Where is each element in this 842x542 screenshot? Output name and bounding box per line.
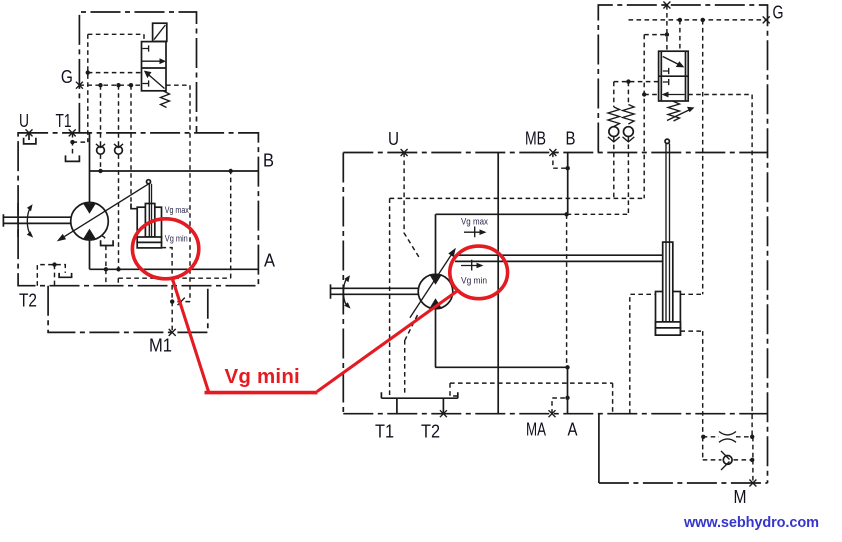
wire: valve top port dashed x=679.9 (679, 20, 681, 51)
svg-text:Vg max: Vg max (461, 217, 488, 227)
svg-text:MA: MA (526, 420, 546, 440)
svg-text:Vg max: Vg max (165, 205, 189, 215)
node: T2 box dot (52, 262, 56, 266)
wire: U pilot dashed polyline (404, 153, 419, 396)
svg-text:G: G (773, 3, 784, 23)
check valve at M (721, 451, 732, 470)
wire: dashed rectangle below A (118, 171, 230, 286)
svg-text:M: M (734, 487, 747, 507)
wire: cylinder bottom dashed (680, 331, 702, 437)
wire: pilot G line dashed (y=19.9) (629, 19, 767, 21)
svg-text:MB: MB (525, 129, 546, 149)
orifice symbol (719, 432, 736, 443)
node: M1 dot (170, 299, 174, 303)
wire: inner box left edge (through pump) (435, 214, 437, 367)
svg-text:B: B (263, 151, 274, 171)
wire: MB sense dashed (553, 153, 568, 169)
spring of pilot valve (161, 91, 170, 108)
wire: dashed y=383.1 (450, 383, 613, 414)
wire: M1 branch dashed (172, 302, 190, 333)
node: pilot drain dot (86, 70, 90, 74)
wire: boundary solid overlay at shaft (17, 203, 19, 237)
rotation arrows P2 (344, 275, 351, 308)
wire: T2 dashed drain box (37, 265, 65, 286)
port M1 (169, 329, 176, 336)
node: MB dot (566, 166, 570, 170)
svg-text:T1: T1 (375, 422, 394, 442)
svg-text:A: A (568, 420, 578, 440)
tank symbol T2 drain (59, 273, 72, 277)
drive shaft (3, 214, 70, 227)
wire: inner box right dashed edge (566, 214, 568, 367)
wire: inner box top edge (436, 213, 567, 215)
wire: right check line x=628.4 (627, 82, 629, 215)
wire: check valve line x=118.5 (118, 85, 120, 269)
drive shaft P2 (331, 284, 419, 298)
wire: valve bottom-left port dashed (644, 94, 659, 96)
svg-text:U: U (388, 129, 399, 149)
svg-text:Vg min: Vg min (165, 233, 188, 243)
tank symbol under U (24, 133, 36, 144)
wire: pilot line to M1 x=190 (189, 85, 191, 301)
node: A-line dot 1 (104, 267, 108, 271)
wire: mid vertical x=498 (497, 153, 499, 414)
svg-text:T2: T2 (19, 291, 37, 311)
svg-text:A: A (264, 251, 275, 271)
wire: cylinder box dashed left (630, 294, 656, 413)
node: orifice dot 2 (750, 435, 754, 439)
pump P1 (variable displacement) (57, 183, 151, 242)
svg-text:www.sebhydro.com: www.sebhydro.com (683, 515, 819, 531)
control valve U2 (2-pos) (659, 51, 689, 101)
wire: T collector bracket (381, 392, 457, 413)
port U2 (401, 149, 408, 156)
tank symbol under T1 (66, 155, 80, 161)
port U (26, 129, 33, 136)
wire: dashed y=214.3 (567, 213, 629, 215)
wire: long dashed y=198.4 (390, 197, 645, 199)
node: B-line dot left (98, 169, 102, 173)
wire: servo Vg-min sense dashed (162, 248, 173, 302)
wire: orifice box dashed (703, 437, 753, 483)
node: checks header dot (626, 79, 630, 83)
wire: port A line (90, 268, 259, 270)
wire: MA sense dashed (552, 398, 568, 414)
port G line (763, 16, 770, 23)
pilot relief valve right (spring+ball) (623, 105, 635, 142)
node: M1 test slash (178, 298, 185, 306)
red circle right (450, 246, 508, 299)
wire: drop to T bracket x=389.6 (389, 198, 391, 395)
wire: inner box bottom edge (435, 366, 567, 368)
linkage to servo cylinder (455, 255, 663, 261)
red leader line left (172, 278, 209, 392)
node: G-line dot 1 (98, 83, 102, 87)
Vg max adjuster (right) (464, 227, 487, 238)
pump P2 (variable displacement) (410, 248, 456, 318)
wire: pilot dashed x=702.7 upper (702, 20, 704, 294)
node: A-line dot 2 (116, 267, 120, 271)
node: orifice dot 1 (701, 435, 705, 439)
port T1 (69, 129, 76, 136)
boundary: main pump housing box (18, 133, 258, 286)
wire: A feed (567, 367, 569, 413)
servo cylinder (stroking piston) (131, 180, 162, 248)
svg-text:U: U (19, 111, 29, 131)
wire: valve left pilot dashed x=644.2 (643, 35, 645, 199)
wire: checks header dashed y=81.6 (614, 81, 659, 83)
port MB (549, 149, 556, 156)
boundary: lower extension box (48, 286, 208, 333)
node: MA dot (565, 396, 569, 400)
wire: port B line (90, 170, 259, 172)
rotation arrows (27, 204, 33, 237)
check valve CV2 (114, 144, 123, 154)
spring of control valve (adjustable) (667, 101, 695, 121)
node: box top dot (564, 212, 568, 216)
node: T1 dot (70, 140, 74, 144)
boundary: lower-right extension (598, 414, 600, 483)
boundary: pilot enclosure (dash-dot) (79, 12, 196, 133)
port T2b (440, 410, 447, 417)
wire: dashed y=34.3 to valve top (88, 34, 144, 41)
Vg min adjuster (right) (461, 260, 484, 271)
wire: check valve line x=100.5 (100, 85, 102, 171)
wire: valve right port to drop x=752.1 (688, 95, 752, 437)
node: orifice dot 3 (750, 458, 754, 462)
red leader line right (317, 292, 456, 392)
wire: servo pilot dashed x=131 (130, 85, 132, 203)
pilot valve U1 (solenoid 2/2) (142, 23, 167, 91)
wire: pilot dashed line G (y=85.2) (79, 84, 190, 86)
node: G-line dot 2 (116, 83, 120, 87)
wire: case drain to A dashed x=105.9 (105, 246, 107, 286)
pilot relief valve left (spring+ball) (608, 107, 620, 142)
wire: pilot drain dashed x=88.7 (87, 34, 89, 142)
svg-text:T2: T2 (421, 422, 440, 442)
wire: left check line x=613.8 (613, 82, 615, 199)
port G top (663, 2, 670, 9)
port MA (549, 410, 556, 417)
boundary: outer housing (343, 153, 767, 414)
wire: B feed (567, 153, 569, 215)
red circle left (132, 219, 198, 279)
svg-text:G: G (61, 67, 73, 87)
boundary: top extension (598, 5, 767, 483)
svg-text:M1: M1 (149, 336, 172, 356)
red underline bar (205, 391, 318, 395)
node: pilot branch dot (665, 32, 669, 36)
svg-text:B: B (566, 129, 576, 149)
node: G-line dot 2 (701, 18, 705, 22)
svg-text:T1: T1 (56, 111, 72, 131)
wire: dashed y=72.6 to valve left (88, 72, 142, 74)
node: box bottom dot (565, 365, 569, 369)
svg-text:Vg mini: Vg mini (225, 365, 300, 388)
svg-text:Vg min: Vg min (461, 276, 487, 286)
wire: T1 drain dashed L (73, 133, 88, 156)
wire: dashed y=34.6 branch (644, 34, 667, 36)
port G (76, 82, 83, 89)
node: G-line dot 1 (678, 18, 682, 22)
wire: pump feed vertical x=89.5 (89, 133, 91, 269)
tank symbol pump case drain (101, 236, 114, 246)
port M (749, 480, 756, 487)
node: G-line dot 3 (129, 83, 133, 87)
node: B-line dot right (229, 169, 233, 173)
check valve CV1 (96, 144, 105, 154)
wire: cylinder box dashed right top (680, 293, 702, 295)
node: valve port dot (642, 92, 646, 96)
servo cylinder (large actuator) (656, 139, 681, 335)
wire: G top drop dashed (666, 5, 668, 51)
